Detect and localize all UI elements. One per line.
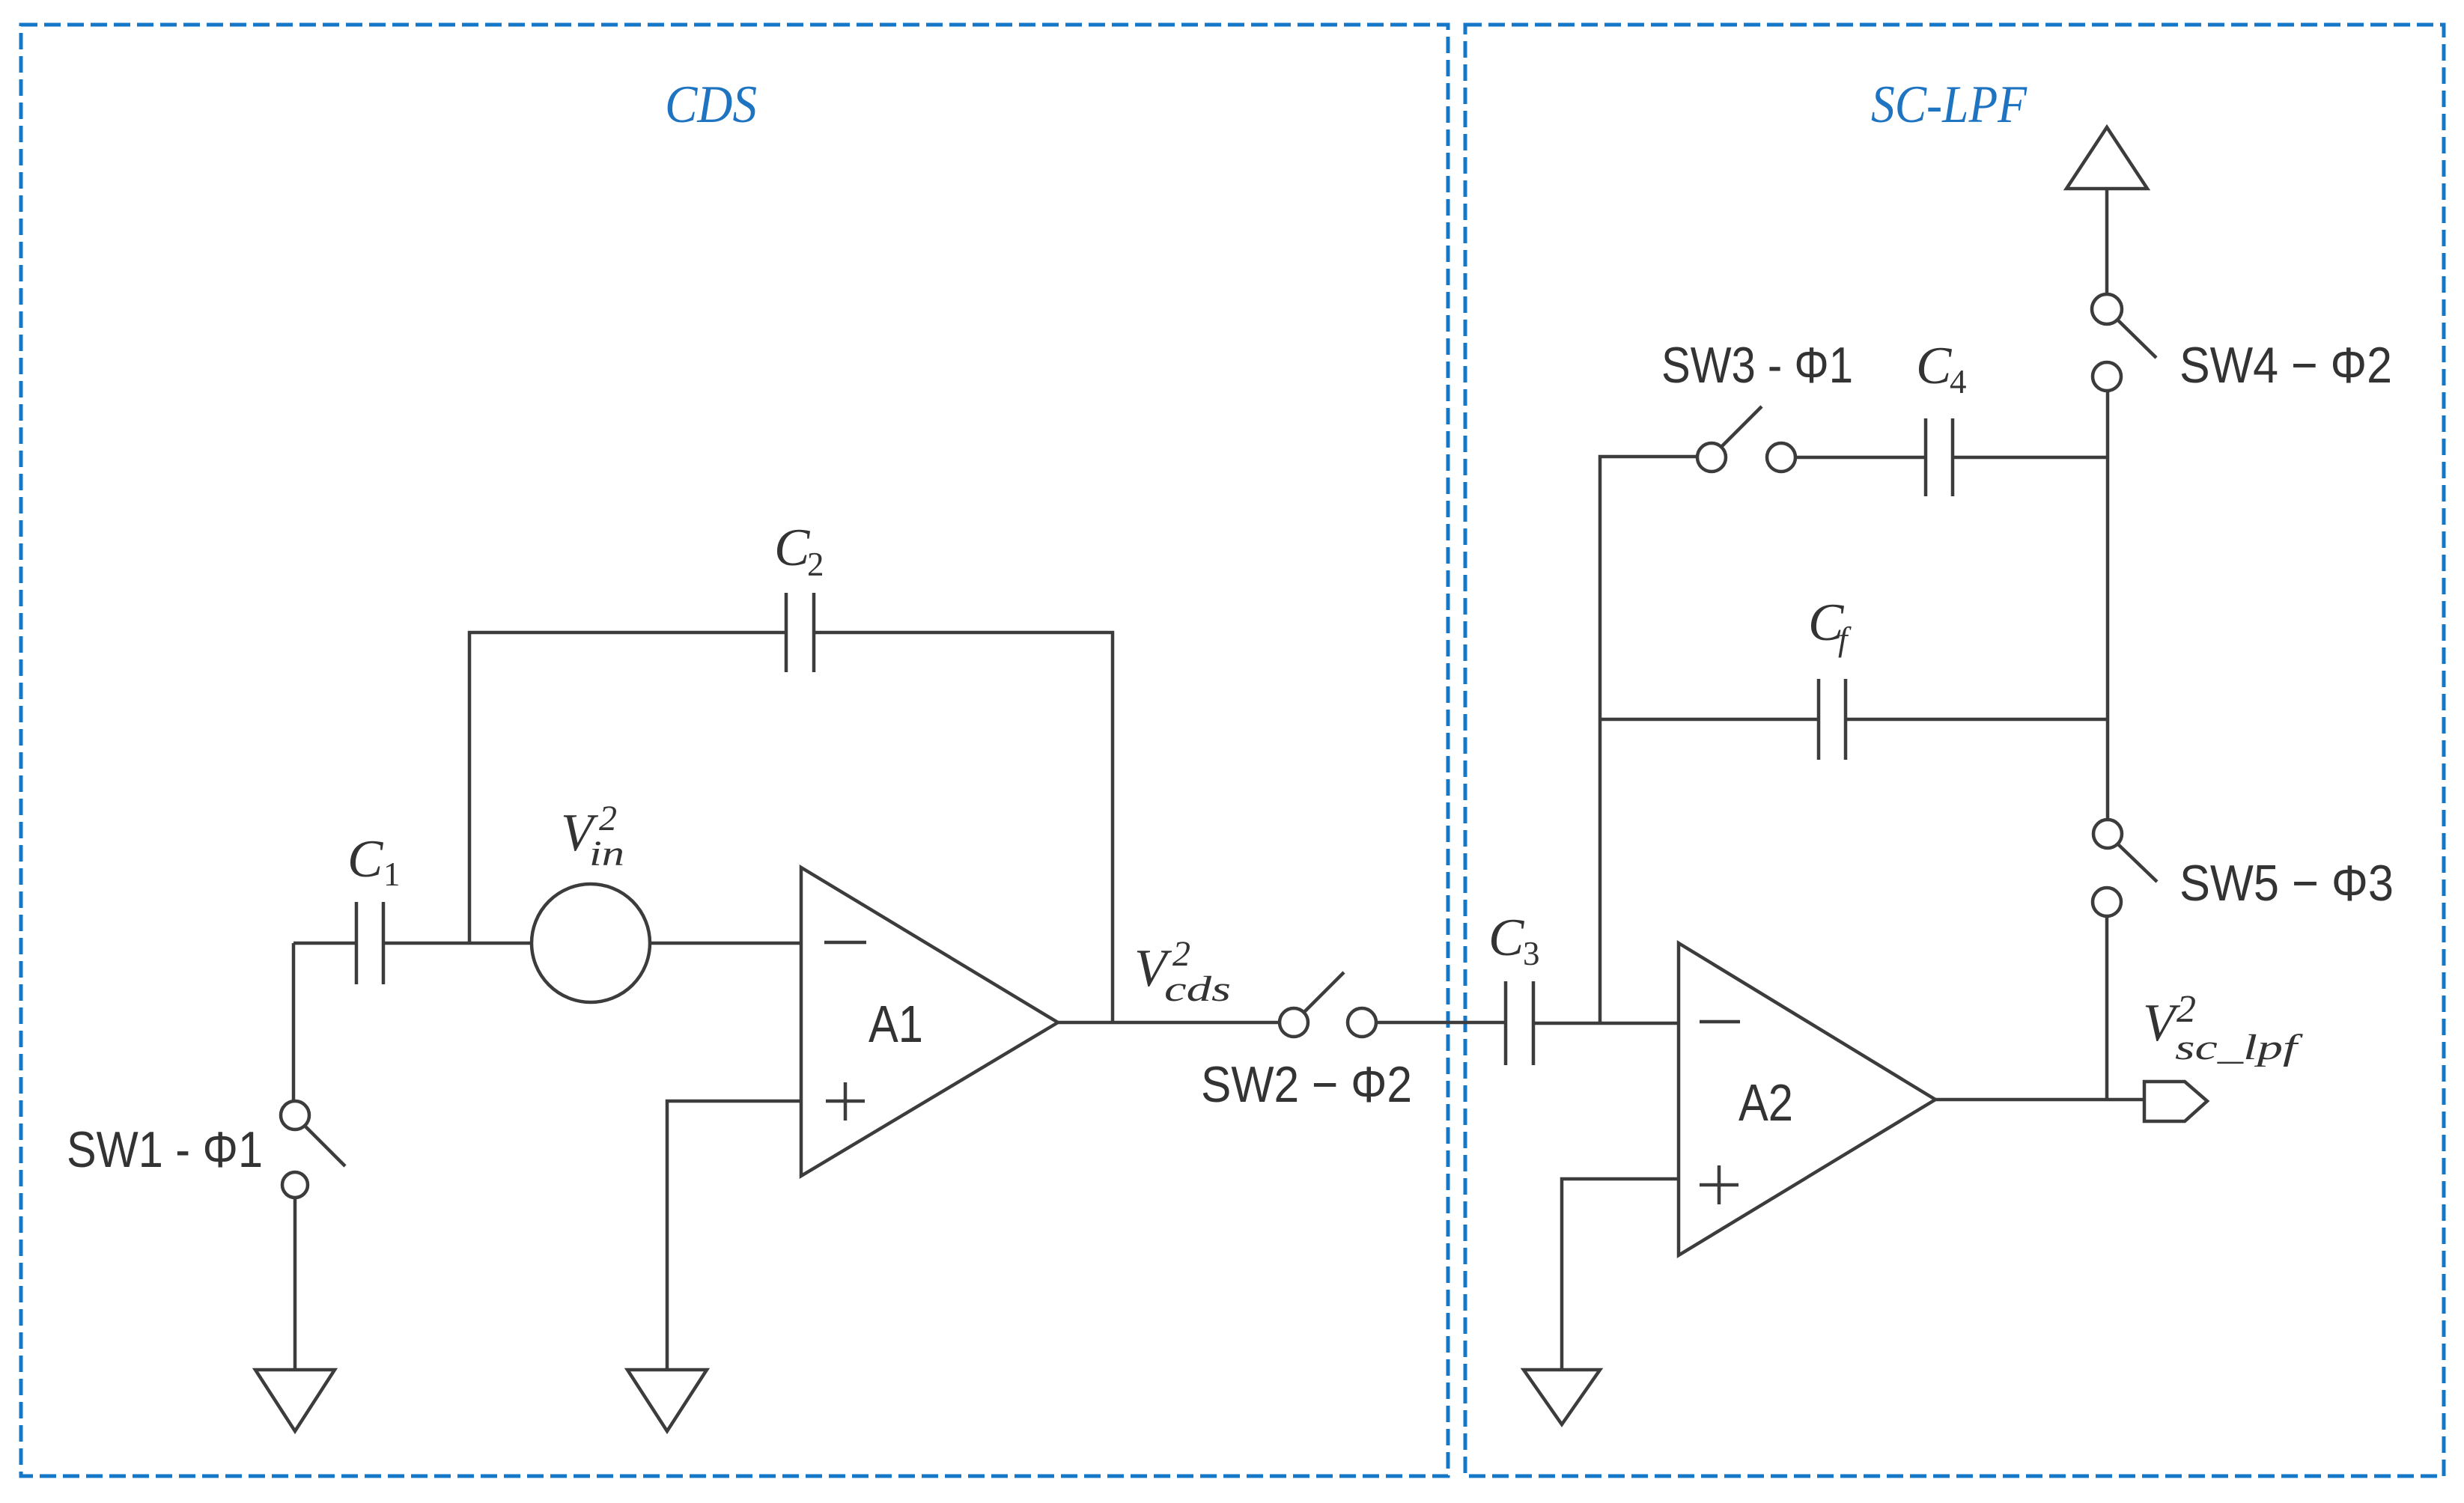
svg-text:C: C	[1916, 337, 1953, 395]
svg-text:C: C	[1488, 909, 1525, 967]
svg-text:SC-LPF: SC-LPF	[1871, 76, 2028, 134]
svg-text:cds: cds	[1164, 969, 1231, 1009]
svg-text:C: C	[774, 519, 811, 577]
svg-text:SW5 − Φ3: SW5 − Φ3	[2179, 855, 2394, 912]
svg-text:4: 4	[1950, 363, 1967, 400]
svg-text:C: C	[347, 830, 384, 888]
svg-text:sc_lpf: sc_lpf	[2175, 1028, 2303, 1067]
svg-text:SW4 − Φ2: SW4 − Φ2	[2179, 337, 2392, 394]
svg-text:SW1 - Φ1: SW1 - Φ1	[67, 1121, 263, 1178]
svg-text:2: 2	[2176, 988, 2196, 1031]
svg-text:1: 1	[383, 856, 401, 893]
svg-text:2: 2	[1172, 934, 1190, 974]
svg-text:2: 2	[599, 799, 617, 838]
svg-text:in: in	[589, 834, 624, 874]
svg-text:A2: A2	[1739, 1073, 1793, 1132]
svg-text:SW3 - Φ1: SW3 - Φ1	[1661, 337, 1853, 394]
svg-text:SW2 − Φ2: SW2 − Φ2	[1201, 1056, 1412, 1113]
svg-text:3: 3	[1523, 935, 1540, 972]
svg-text:A1: A1	[869, 995, 923, 1053]
svg-text:CDS: CDS	[665, 76, 757, 134]
svg-text:2: 2	[807, 546, 824, 583]
